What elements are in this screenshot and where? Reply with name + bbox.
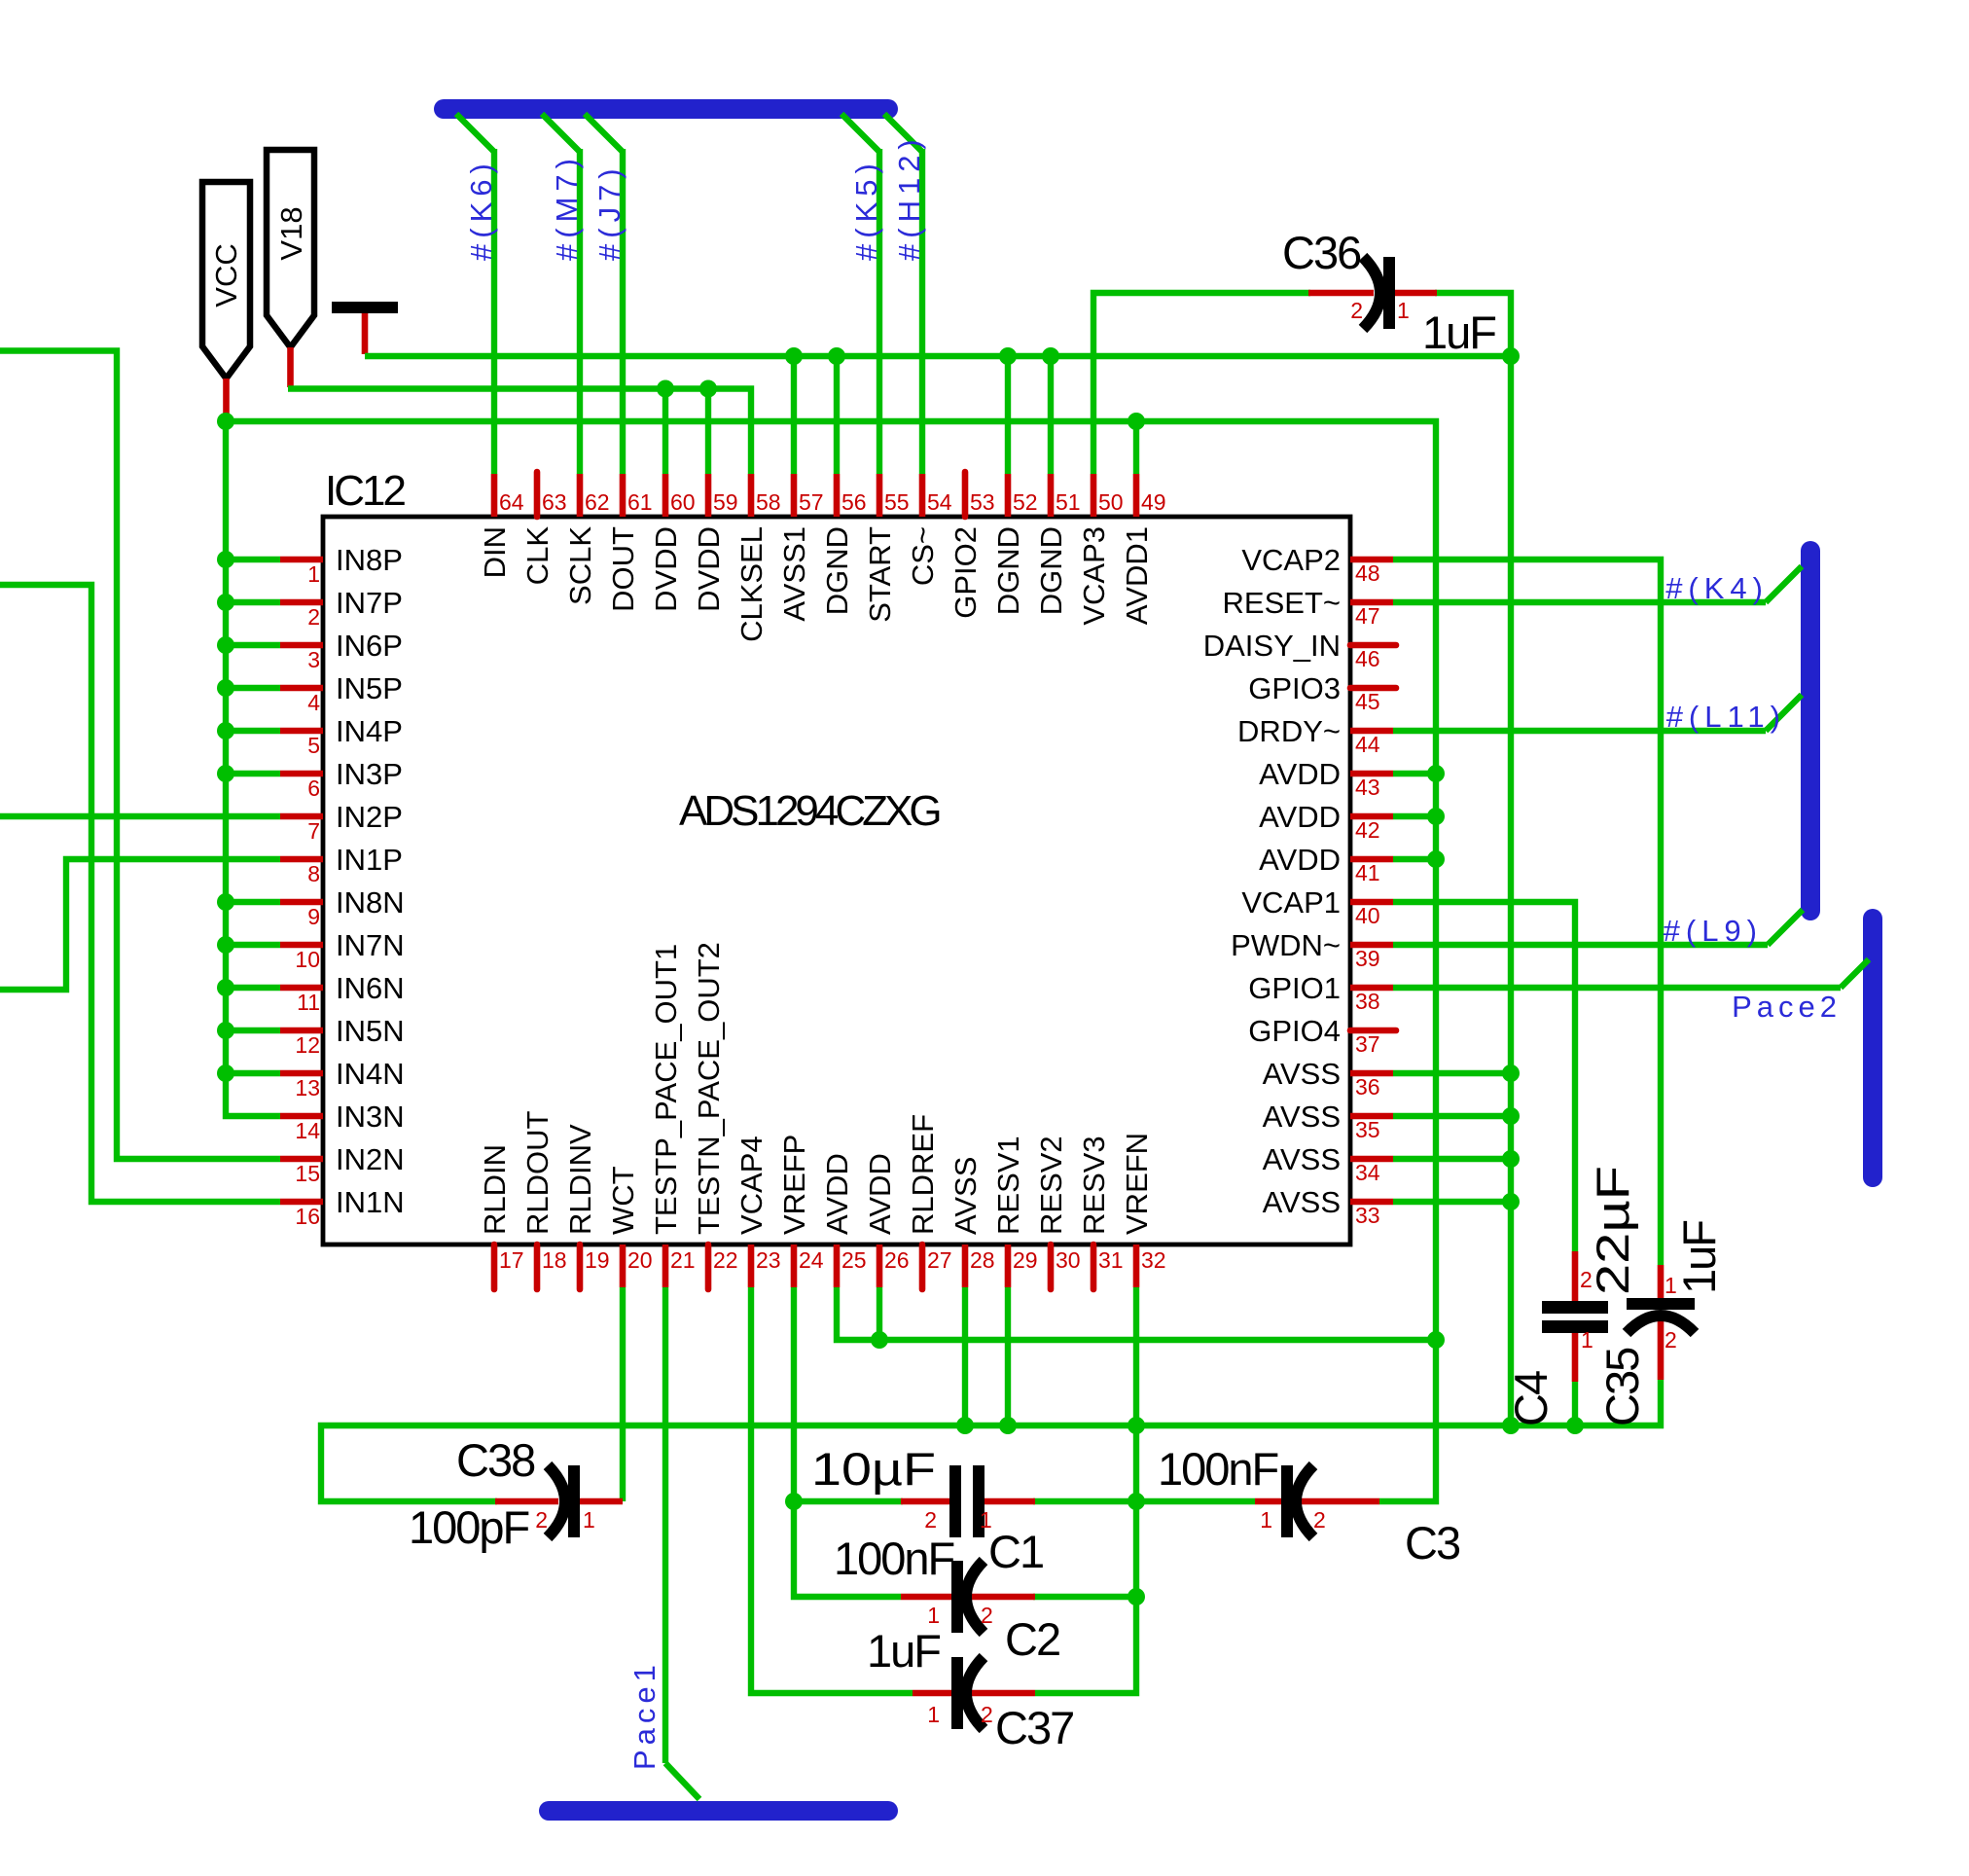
pin 38 (GPIO1) of IC12, right side xyxy=(1350,985,1393,992)
svg-text:36: 36 xyxy=(1355,1074,1380,1100)
svg-text:DGND: DGND xyxy=(991,526,1025,615)
pin of VCC symbol xyxy=(223,379,230,418)
pin 45 (GPIO3) of IC12, right side xyxy=(1350,685,1396,692)
capacitor C37 lead 2 xyxy=(969,1690,1035,1697)
pin 26 (AVDD) of IC12, bottom side xyxy=(877,1245,883,1287)
junction VCC col at row 12 xyxy=(217,1022,234,1039)
wire VCC drop to pin 49 (AVDD1) xyxy=(1133,421,1139,474)
svg-text:#(H12): #(H12) xyxy=(892,133,926,261)
svg-text:C1: C1 xyxy=(988,1526,1043,1577)
wire VCAP2 pin 48 to C35 xyxy=(1393,559,1661,1265)
svg-text:TESTP_PACE_OUT1: TESTP_PACE_OUT1 xyxy=(649,944,683,1235)
capacitor C1 lead 1 xyxy=(984,1498,1035,1505)
svg-text:VREFP: VREFP xyxy=(777,1135,811,1235)
junction VCC at AVDD pin 41 xyxy=(1427,850,1445,868)
svg-text:AVSS1: AVSS1 xyxy=(777,526,811,622)
svg-text:AVSS: AVSS xyxy=(1263,1142,1341,1176)
svg-text:35: 35 xyxy=(1355,1117,1380,1142)
pin 7 (IN2P) of IC12, left side xyxy=(280,813,323,820)
svg-text:DGND: DGND xyxy=(1034,526,1068,615)
svg-text:VCAP4: VCAP4 xyxy=(734,1136,769,1235)
svg-text:45: 45 xyxy=(1355,689,1380,714)
svg-text:CS~: CS~ xyxy=(906,526,940,586)
capacitor C35 lead 2 xyxy=(1658,1316,1665,1380)
svg-text:56: 56 xyxy=(841,489,867,515)
wire TESTP pin 21 vertical (Pace1) xyxy=(662,1287,668,1763)
junction VCC at AVDD pin 43 xyxy=(1427,765,1445,782)
svg-text:100nF: 100nF xyxy=(1158,1443,1278,1495)
pin 55 (START) of IC12, top side xyxy=(877,474,883,517)
svg-text:IN1P: IN1P xyxy=(336,843,403,877)
svg-text:62: 62 xyxy=(585,489,610,515)
junction VCC col at row 5 xyxy=(217,722,234,740)
pin 61 (DOUT) of IC12, top side xyxy=(620,474,626,517)
wire VCC to pin 4 xyxy=(226,685,280,691)
pin 19 (RLDINV) of IC12, bottom side xyxy=(577,1245,584,1289)
capacitor C38 plates xyxy=(568,1465,580,1537)
pin 56 (DGND) of IC12, top side xyxy=(834,474,841,517)
wire VCC left vertical xyxy=(226,421,280,1116)
pin 2 (IN7P) of IC12, left side xyxy=(280,599,323,606)
svg-text:21: 21 xyxy=(670,1247,696,1273)
wire bus entry #(J7) xyxy=(585,114,623,152)
svg-text:#(L9): #(L9) xyxy=(1664,914,1763,948)
pin 49 (AVDD1) of IC12, top side xyxy=(1133,474,1140,517)
svg-text:DIN: DIN xyxy=(478,526,512,578)
svg-text:Pace1: Pace1 xyxy=(627,1660,662,1770)
pin 8 (IN1P) of IC12, left side xyxy=(280,856,323,863)
junction DGND at C36 vertical xyxy=(1502,347,1520,365)
pin 9 (IN8N) of IC12, left side xyxy=(280,899,323,906)
wire AVDD bottom: pin 26 drop xyxy=(877,1287,882,1340)
svg-text:25: 25 xyxy=(841,1247,867,1273)
wire VCC to pin 11 xyxy=(226,985,280,991)
svg-text:1: 1 xyxy=(307,561,320,587)
svg-text:1: 1 xyxy=(980,1507,992,1533)
svg-text:100nF: 100nF xyxy=(834,1533,954,1584)
wire DGND drop to pin 57 xyxy=(791,356,797,474)
junction at AVSS pin 34 xyxy=(1502,1150,1520,1168)
wire VCC to pin 3 xyxy=(226,642,280,648)
capacitor C38 lead 1 xyxy=(580,1498,623,1505)
svg-text:3: 3 xyxy=(307,647,320,672)
capacitor C1 plates xyxy=(949,1465,961,1537)
svg-text:CLKSEL: CLKSEL xyxy=(734,526,769,642)
svg-text:GPIO3: GPIO3 xyxy=(1248,671,1341,705)
junction VREFN at C1/C3 row xyxy=(1128,1493,1145,1510)
svg-text:RESET~: RESET~ xyxy=(1223,586,1341,620)
pin 23 (VCAP4) of IC12, bottom side xyxy=(748,1245,755,1287)
wire DGND drop to pin 56 xyxy=(834,356,840,474)
svg-text:48: 48 xyxy=(1355,560,1380,586)
junction DGND at pin 57 xyxy=(785,347,803,365)
svg-text:IN8N: IN8N xyxy=(336,885,405,920)
capacitor C37 lead 1 xyxy=(913,1690,953,1697)
wire VCC to pin 10 xyxy=(226,942,280,948)
junction VCC col at row 13 xyxy=(217,1064,234,1082)
pin 21 (TESTP_PACE_OUT1) of IC12, bottom side xyxy=(662,1245,669,1287)
wire bus entry #(H12) xyxy=(884,114,922,152)
wire WCT pin 20 to C38 pin 1 xyxy=(620,1287,626,1501)
svg-text:Pace2: Pace2 xyxy=(1732,990,1842,1024)
svg-text:2: 2 xyxy=(981,1702,993,1727)
svg-text:2: 2 xyxy=(924,1507,937,1533)
svg-text:41: 41 xyxy=(1355,860,1380,885)
svg-text:C3: C3 xyxy=(1405,1517,1460,1569)
svg-text:1: 1 xyxy=(927,1702,940,1727)
wire AVDD bottom rail xyxy=(837,1287,1436,1340)
svg-text:29: 29 xyxy=(1013,1247,1038,1273)
svg-text:34: 34 xyxy=(1355,1160,1380,1185)
wire C2 pin 2 to VREFN xyxy=(1033,1594,1136,1600)
svg-text:AVDD: AVDD xyxy=(820,1153,854,1235)
svg-text:SCLK: SCLK xyxy=(563,526,597,605)
svg-text:18: 18 xyxy=(542,1247,567,1273)
svg-text:7: 7 xyxy=(307,818,320,844)
svg-text:23: 23 xyxy=(756,1247,781,1273)
pin 6 (IN3P) of IC12, left side xyxy=(280,771,323,777)
svg-text:VCC: VCC xyxy=(209,243,243,307)
pin 43 (AVDD) of IC12, right side xyxy=(1350,771,1393,777)
wire V18 drop to pin 60 (DVDD) xyxy=(662,389,668,475)
junction AVSS at pin 28 xyxy=(956,1417,974,1434)
svg-text:38: 38 xyxy=(1355,989,1380,1014)
wire VCAP4 pin 23 to C37 xyxy=(751,1287,913,1693)
power symbol VCC xyxy=(202,182,250,379)
svg-text:IN6P: IN6P xyxy=(336,629,403,663)
svg-text:AVSS: AVSS xyxy=(949,1157,983,1235)
pin 51 (DGND) of IC12, top side xyxy=(1048,474,1055,517)
svg-text:AVDD: AVDD xyxy=(863,1153,897,1235)
svg-text:16: 16 xyxy=(295,1204,320,1229)
wire VCC to pin 5 xyxy=(226,728,280,734)
pin 30 (RESV2) of IC12, bottom side xyxy=(1048,1245,1055,1289)
svg-text:#(J7): #(J7) xyxy=(592,162,626,261)
junction VCC col at row 4 xyxy=(217,679,234,697)
svg-text:AVSS: AVSS xyxy=(1263,1185,1341,1219)
pin of ground symbol xyxy=(362,313,369,354)
svg-text:AVDD: AVDD xyxy=(1259,800,1341,834)
svg-text:VCAP3: VCAP3 xyxy=(1077,526,1111,626)
svg-text:1uF: 1uF xyxy=(1422,307,1495,358)
capacitor C4 lead 2 xyxy=(1572,1251,1579,1304)
svg-text:5: 5 xyxy=(307,733,320,758)
svg-text:54: 54 xyxy=(927,489,952,515)
pin 58 (CLKSEL) of IC12, top side xyxy=(748,474,755,517)
svg-text:START: START xyxy=(863,526,897,623)
junction at AVSS pin 35 xyxy=(1502,1107,1520,1125)
svg-text:11: 11 xyxy=(297,990,320,1015)
bus segment (right lower) xyxy=(1863,919,1882,1177)
wire bus entry #(M7) xyxy=(542,114,580,152)
pin 47 (RESET~) of IC12, right side xyxy=(1350,599,1393,606)
svg-text:AVDD1: AVDD1 xyxy=(1120,526,1154,625)
pin 48 (VCAP2) of IC12, right side xyxy=(1350,557,1393,563)
svg-text:IN2N: IN2N xyxy=(336,1142,405,1176)
svg-text:22: 22 xyxy=(713,1247,738,1273)
pin 15 (IN2N) of IC12, left side xyxy=(280,1156,323,1163)
pin 41 (AVDD) of IC12, right side xyxy=(1350,856,1393,863)
svg-text:2: 2 xyxy=(1313,1507,1326,1533)
capacitor C2 lead 2 xyxy=(969,1594,1035,1601)
svg-text:2: 2 xyxy=(1665,1327,1677,1353)
wire bus entry #(K5) xyxy=(841,114,879,152)
svg-text:10µF: 10µF xyxy=(811,1443,936,1495)
junction VCC col at row 3 xyxy=(217,636,234,654)
svg-text:IN3P: IN3P xyxy=(336,757,403,791)
wire RESET~ pin 47 to bus xyxy=(1393,599,1766,605)
junction AVSS at C4 xyxy=(1566,1417,1584,1434)
svg-text:DVDD: DVDD xyxy=(692,526,726,612)
pin 33 (AVSS) of IC12, right side xyxy=(1350,1199,1393,1206)
svg-text:IN4N: IN4N xyxy=(336,1057,405,1091)
pin 10 (IN7N) of IC12, left side xyxy=(280,942,323,949)
svg-text:2: 2 xyxy=(981,1603,993,1628)
svg-text:IN4P: IN4P xyxy=(336,714,403,748)
wire Pace1 diagonal to bus xyxy=(665,1763,699,1799)
svg-text:59: 59 xyxy=(713,489,738,515)
wire VCC to pin 1 xyxy=(226,557,280,562)
capacitor C1 lead 2 xyxy=(901,1498,951,1505)
pin 42 (AVDD) of IC12, right side xyxy=(1350,813,1393,820)
wire IN1P from left edge to pin 8 xyxy=(0,859,280,990)
svg-text:1: 1 xyxy=(1665,1273,1677,1298)
junction VCC at AVDD pin 42 xyxy=(1427,808,1445,825)
pin of V18 symbol xyxy=(287,347,294,387)
junction AVDD bottom at pin 26 xyxy=(871,1331,888,1349)
svg-text:IN3N: IN3N xyxy=(336,1100,405,1134)
svg-text:32: 32 xyxy=(1141,1247,1166,1273)
wire C4 pin 1 to AVSS rail xyxy=(1572,1382,1578,1425)
svg-text:V18: V18 xyxy=(274,206,308,260)
capacitor C36 plates xyxy=(1383,257,1395,329)
svg-text:RLDIN: RLDIN xyxy=(478,1144,512,1235)
pin 14 (IN3N) of IC12, left side xyxy=(280,1113,323,1120)
svg-text:IN6N: IN6N xyxy=(336,971,405,1005)
svg-text:30: 30 xyxy=(1056,1247,1081,1273)
svg-text:58: 58 xyxy=(756,489,781,515)
pin 57 (AVSS1) of IC12, top side xyxy=(791,474,798,517)
svg-text:IN5P: IN5P xyxy=(336,671,403,705)
svg-text:60: 60 xyxy=(670,489,696,515)
pin 25 (AVDD) of IC12, bottom side xyxy=(834,1245,841,1287)
svg-text:2: 2 xyxy=(307,604,320,630)
wire AVDD pin 43 to VCC rail xyxy=(1393,771,1436,776)
svg-text:17: 17 xyxy=(499,1247,524,1273)
junction VREFP at C1 row xyxy=(785,1493,803,1510)
svg-text:C2: C2 xyxy=(1005,1613,1059,1665)
wire DRDY~ pin 44 to bus xyxy=(1393,728,1766,734)
wire IN2P from left edge to pin 7 xyxy=(0,813,280,819)
pin 28 (AVSS) of IC12, bottom side xyxy=(962,1245,969,1287)
wire C1 pin 1 to VREFN xyxy=(1033,1498,1136,1504)
svg-text:63: 63 xyxy=(542,489,567,515)
junction VCC col at row 6 xyxy=(217,765,234,782)
wire DRDY~ diagonal xyxy=(1766,695,1802,731)
svg-text:AVDD: AVDD xyxy=(1259,757,1341,791)
svg-text:33: 33 xyxy=(1355,1203,1380,1228)
wire pin 28 drop to AVSS rail xyxy=(962,1287,968,1425)
svg-text:51: 51 xyxy=(1056,489,1081,515)
junction DGND vertical at AVSS rail xyxy=(1502,1417,1520,1434)
svg-text:6: 6 xyxy=(307,776,320,801)
svg-text:37: 37 xyxy=(1355,1031,1380,1057)
pin 39 (PWDN~) of IC12, right side xyxy=(1350,942,1393,949)
pin 20 (WCT) of IC12, bottom side xyxy=(620,1245,626,1287)
junction VCC col at row 9 xyxy=(217,893,234,911)
wire VCC to pin 9 xyxy=(226,899,280,905)
svg-text:55: 55 xyxy=(884,489,910,515)
svg-text:28: 28 xyxy=(970,1247,995,1273)
junction AVSS at pin 29 xyxy=(999,1417,1017,1434)
svg-text:IN8P: IN8P xyxy=(336,543,403,577)
wire VCC to pin 6 xyxy=(226,771,280,776)
svg-text:12: 12 xyxy=(295,1032,320,1058)
svg-text:14: 14 xyxy=(295,1118,320,1143)
pin 60 (DVDD) of IC12, top side xyxy=(662,474,669,517)
svg-text:C37: C37 xyxy=(995,1702,1073,1753)
junction V18 at pin 59 xyxy=(699,380,717,398)
wire V18 drop to pin 59 (DVDD) xyxy=(705,389,711,475)
capacitor C35 lead 1 xyxy=(1658,1265,1665,1300)
svg-text:1uF: 1uF xyxy=(867,1625,940,1677)
capacitor C4 plates xyxy=(1542,1301,1608,1314)
svg-text:DOUT: DOUT xyxy=(606,526,640,612)
svg-text:46: 46 xyxy=(1355,646,1380,671)
svg-text:RLDOUT: RLDOUT xyxy=(520,1110,555,1235)
pin 59 (DVDD) of IC12, top side xyxy=(705,474,712,517)
junction at AVSS pin 33 xyxy=(1502,1193,1520,1210)
svg-text:#(M7): #(M7) xyxy=(550,153,584,261)
wire AVSS pin 35 to vertical xyxy=(1393,1113,1511,1119)
junction DGND at pin 56 xyxy=(828,347,845,365)
svg-text:#(K6): #(K6) xyxy=(464,158,498,261)
svg-text:49: 49 xyxy=(1141,489,1166,515)
svg-text:4: 4 xyxy=(307,690,320,715)
junction VCC col at row 2 xyxy=(217,594,234,611)
svg-text:9: 9 xyxy=(307,904,320,929)
pin 54 (CS~) of IC12, top side xyxy=(919,474,926,517)
svg-text:RESV1: RESV1 xyxy=(991,1136,1025,1235)
svg-text:2: 2 xyxy=(535,1507,548,1533)
pin 27 (RLDREF) of IC12, bottom side xyxy=(919,1245,926,1289)
svg-text:GPIO4: GPIO4 xyxy=(1248,1014,1341,1048)
wire AVSS bottom rail xyxy=(321,1380,1661,1501)
svg-text:VCAP1: VCAP1 xyxy=(1241,885,1341,920)
wire GPIO1 diagonal (Pace2) xyxy=(1841,959,1869,988)
svg-text:IN7P: IN7P xyxy=(336,586,403,620)
wire VREFN pin 32 vertical xyxy=(1035,1287,1136,1693)
pin 63 (CLK) of IC12, top side xyxy=(534,472,541,517)
junction VCC at supply xyxy=(217,413,234,430)
svg-text:1: 1 xyxy=(1260,1507,1272,1533)
junction VCC col at row 1 xyxy=(217,551,234,568)
wire AVSS pin 36 to vertical xyxy=(1393,1070,1511,1076)
ground symbol xyxy=(332,302,398,313)
wire DGND drop to pin 51 xyxy=(1048,356,1054,474)
svg-text:DVDD: DVDD xyxy=(649,526,683,612)
wire V18 horizontal xyxy=(288,389,751,475)
svg-text:C35: C35 xyxy=(1596,1348,1648,1426)
pin 44 (DRDY~) of IC12, right side xyxy=(1350,728,1393,735)
pin 24 (VREFP) of IC12, bottom side xyxy=(791,1245,798,1287)
capacitor C2 lead 1 xyxy=(901,1594,951,1601)
wire VCC to pin 12 xyxy=(226,1028,280,1033)
wire AVDD pin 42 to VCC rail xyxy=(1393,813,1436,819)
junction VCC col at row 10 xyxy=(217,936,234,954)
svg-text:VREFN: VREFN xyxy=(1120,1133,1154,1235)
svg-text:RLDINV: RLDINV xyxy=(563,1124,597,1235)
svg-text:DRDY~: DRDY~ xyxy=(1237,714,1341,748)
bus segment (bottom) xyxy=(549,1801,888,1821)
svg-text:IC12: IC12 xyxy=(325,467,405,515)
svg-text:10: 10 xyxy=(295,947,320,972)
svg-text:40: 40 xyxy=(1355,903,1380,928)
capacitor C36 lead 2 xyxy=(1308,290,1374,297)
svg-text:VCAP2: VCAP2 xyxy=(1241,543,1341,577)
svg-text:RLDREF: RLDREF xyxy=(906,1114,940,1235)
wire RESET~ diagonal xyxy=(1766,566,1802,602)
op-amp/IC body IC12 ADS1294CZXG xyxy=(323,517,1350,1245)
svg-text:DAISY_IN: DAISY_IN xyxy=(1203,629,1341,663)
wire VCC horizontal rail xyxy=(223,421,1436,1501)
svg-text:57: 57 xyxy=(799,489,824,515)
pin 11 (IN6N) of IC12, left side xyxy=(280,985,323,992)
svg-text:47: 47 xyxy=(1355,603,1380,629)
pin 1 (IN8P) of IC12, left side xyxy=(280,557,323,563)
wire PWDN~ pin 39 to bus xyxy=(1393,942,1768,948)
svg-text:GPIO2: GPIO2 xyxy=(949,526,983,619)
svg-text:GPIO1: GPIO1 xyxy=(1248,971,1341,1005)
svg-text:39: 39 xyxy=(1355,946,1380,971)
wire C3 pin 1 from VREFN xyxy=(1136,1498,1255,1504)
svg-text:TESTN_PACE_OUT2: TESTN_PACE_OUT2 xyxy=(692,942,726,1235)
junction VCC col at row 11 xyxy=(217,979,234,996)
capacitor C2 plates xyxy=(951,1561,963,1633)
svg-text:53: 53 xyxy=(970,489,995,515)
pin 64 (DIN) of IC12, top side xyxy=(491,474,498,517)
capacitor C37 plates xyxy=(951,1657,963,1729)
pin 3 (IN6P) of IC12, left side xyxy=(280,642,323,649)
svg-text:8: 8 xyxy=(307,861,320,886)
svg-text:DGND: DGND xyxy=(820,526,854,615)
wire IN2N from left edge to pin 15 xyxy=(0,351,280,1160)
capacitor C36 lead 1 xyxy=(1395,290,1437,297)
svg-text:#(K5): #(K5) xyxy=(849,158,883,261)
svg-text:#(K4): #(K4) xyxy=(1665,571,1769,605)
junction VCC at pin 49 column xyxy=(1128,413,1145,430)
svg-text:43: 43 xyxy=(1355,775,1380,800)
svg-text:19: 19 xyxy=(585,1247,610,1273)
svg-text:13: 13 xyxy=(295,1075,320,1100)
pin 16 (IN1N) of IC12, left side xyxy=(280,1199,323,1206)
wire C36 pin 1 to right xyxy=(1435,293,1511,1425)
wire PWDN~ diagonal xyxy=(1768,910,1803,945)
svg-text:1: 1 xyxy=(1397,298,1410,323)
bus segment (top) xyxy=(444,99,888,119)
wire VCAP3 pin 50 riser xyxy=(1093,293,1310,474)
junction AVSS at pin 32 (VREFN) xyxy=(1128,1417,1145,1434)
svg-text:1: 1 xyxy=(1581,1327,1593,1353)
svg-text:PWDN~: PWDN~ xyxy=(1231,928,1341,962)
bus segment (right main) xyxy=(1801,551,1820,911)
pin 36 (AVSS) of IC12, right side xyxy=(1350,1070,1393,1077)
wire VCAP1 pin 40 to C4 xyxy=(1393,902,1575,1251)
pin 50 (VCAP3) of IC12, top side xyxy=(1091,474,1097,517)
svg-text:44: 44 xyxy=(1355,732,1380,757)
pin 40 (VCAP1) of IC12, right side xyxy=(1350,899,1393,906)
wire C1 pin 2 from VREFP xyxy=(794,1498,903,1504)
